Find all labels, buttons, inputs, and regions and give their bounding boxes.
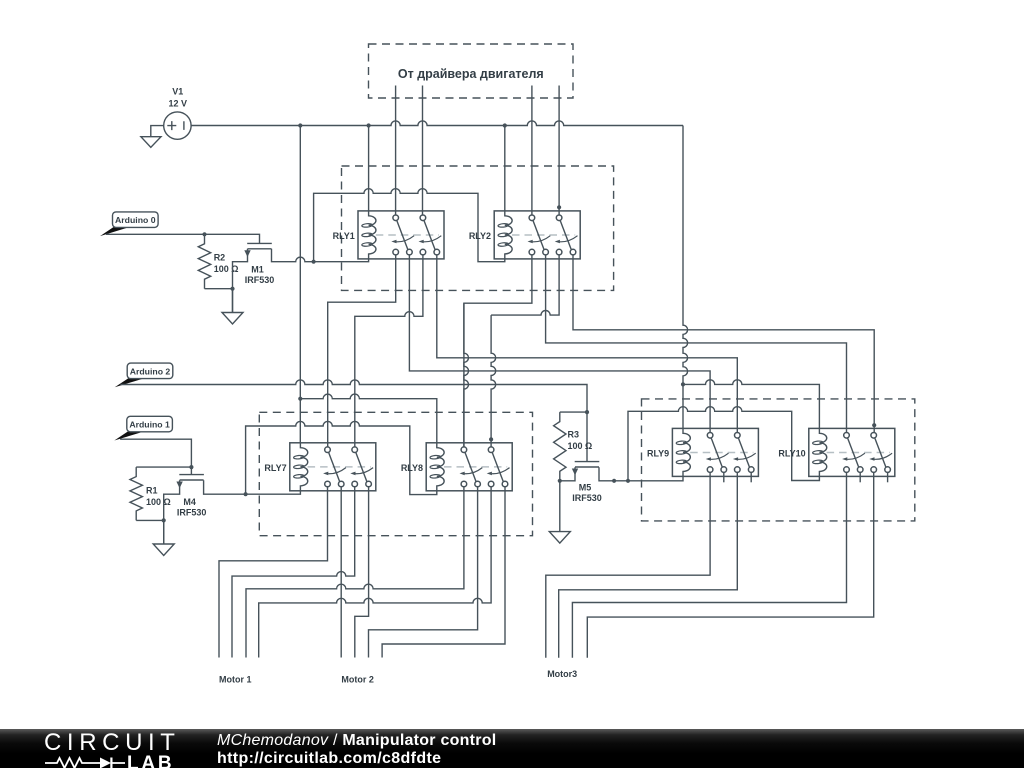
svg-text:Arduino 1: Arduino 1 xyxy=(129,420,170,430)
svg-text:M1: M1 xyxy=(251,264,264,274)
svg-text:R3: R3 xyxy=(568,430,580,440)
svg-text:R2: R2 xyxy=(214,252,226,262)
svg-text:RLY2: RLY2 xyxy=(469,231,491,241)
svg-text:RLY7: RLY7 xyxy=(264,463,286,473)
svg-text:IRF530: IRF530 xyxy=(245,275,275,285)
svg-text:RLY8: RLY8 xyxy=(401,463,423,473)
svg-text:M5: M5 xyxy=(579,482,592,492)
svg-text:Motor 2: Motor 2 xyxy=(341,675,374,685)
svg-text:V1: V1 xyxy=(172,87,183,97)
svg-text:M4: M4 xyxy=(183,497,196,507)
svg-text:100 Ω: 100 Ω xyxy=(568,441,593,451)
svg-text:RLY1: RLY1 xyxy=(333,231,355,241)
svg-text:Arduino 2: Arduino 2 xyxy=(130,366,171,376)
svg-text:Motor 1: Motor 1 xyxy=(219,675,252,685)
svg-text:IRF530: IRF530 xyxy=(572,493,602,503)
svg-text:R1: R1 xyxy=(146,486,158,496)
svg-text:Arduino 0: Arduino 0 xyxy=(115,215,156,225)
svg-text:100 Ω: 100 Ω xyxy=(214,264,239,274)
svg-text:RLY10: RLY10 xyxy=(778,449,805,459)
svg-text:100 Ω: 100 Ω xyxy=(146,497,171,507)
svg-text:Motor3: Motor3 xyxy=(547,669,577,679)
svg-text:RLY9: RLY9 xyxy=(647,449,669,459)
svg-text:12 V: 12 V xyxy=(169,98,188,108)
svg-text:IRF530: IRF530 xyxy=(177,508,207,518)
svg-text:От драйвера двигателя: От драйвера двигателя xyxy=(398,67,544,81)
